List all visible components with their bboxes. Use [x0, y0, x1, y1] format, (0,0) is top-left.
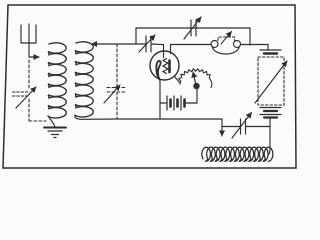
rheostat R1 wiper arm: [193, 72, 200, 89]
wire filament lead down: [159, 80, 161, 119]
arrow C4 variable: [184, 17, 201, 39]
arrow C5 variable: [232, 113, 252, 139]
wire tickler right end: [269, 144, 270, 154]
rheostat R1 arc: [179, 69, 212, 88]
phones P right cup: [234, 41, 241, 48]
capacitor C2 tuning (dashed): [107, 44, 127, 119]
tube V1 plate: [168, 61, 171, 73]
capacitor C3 grid: [136, 36, 164, 52]
wire phones to B battery: [241, 45, 269, 51]
wire L1 bottom to ground: [48, 116, 55, 127]
wire antenna tap to coil L1: [29, 56, 39, 58]
wire throttle top line: [136, 28, 250, 45]
coil L2: [75, 42, 93, 117]
capacitor C1 antenna (dashed plates): [13, 92, 30, 96]
capacitor C5 regeneration: [241, 119, 246, 134]
wire rheostat wiper to battery A: [186, 89, 197, 103]
battery B2 filament cells: [167, 96, 185, 110]
wire L2 bottom to common bus: [75, 115, 117, 119]
wire grid lead into tube: [163, 45, 165, 58]
wire common bottom bus: [117, 118, 222, 120]
wire plate lead: [171, 45, 212, 54]
arrow C3 variable: [139, 35, 155, 52]
wire filament to A battery: [160, 102, 166, 104]
wire B battery to tickler: [269, 118, 271, 145]
tube V1 filament: [156, 61, 160, 80]
battery B1 top cells: [260, 50, 281, 54]
ground: [44, 128, 66, 138]
phones P left cup: [211, 41, 218, 48]
tube V1 grid zigzag: [163, 59, 168, 74]
resistor R2 dashed box across phones: [218, 37, 235, 41]
capacitor C4 throttle: [191, 20, 196, 36]
coil L3 tickler: [202, 147, 273, 161]
battery B1 dashed body: [258, 57, 284, 105]
wire dashed antenna series branch: [29, 60, 46, 121]
border frame: [3, 5, 296, 168]
wire filament rheostat link: [175, 77, 181, 84]
arrow C2 variable: [104, 85, 120, 103]
battery B1 bottom cells: [260, 108, 281, 118]
coil L1: [48, 43, 66, 118]
arrow B1 variable tap: [255, 61, 287, 103]
phones P band arc: [212, 47, 239, 55]
wire regen cap branch: [222, 126, 270, 128]
tube V1 envelope: [150, 51, 179, 80]
arrow C1 variable: [16, 87, 36, 108]
wire junction up to throttle line: [135, 28, 137, 44]
antenna A: [21, 24, 36, 57]
arrow R2 variable: [221, 32, 232, 45]
wire grid lead from L2 top: [92, 43, 137, 45]
wire tap arrow to tickler: [221, 119, 223, 136]
